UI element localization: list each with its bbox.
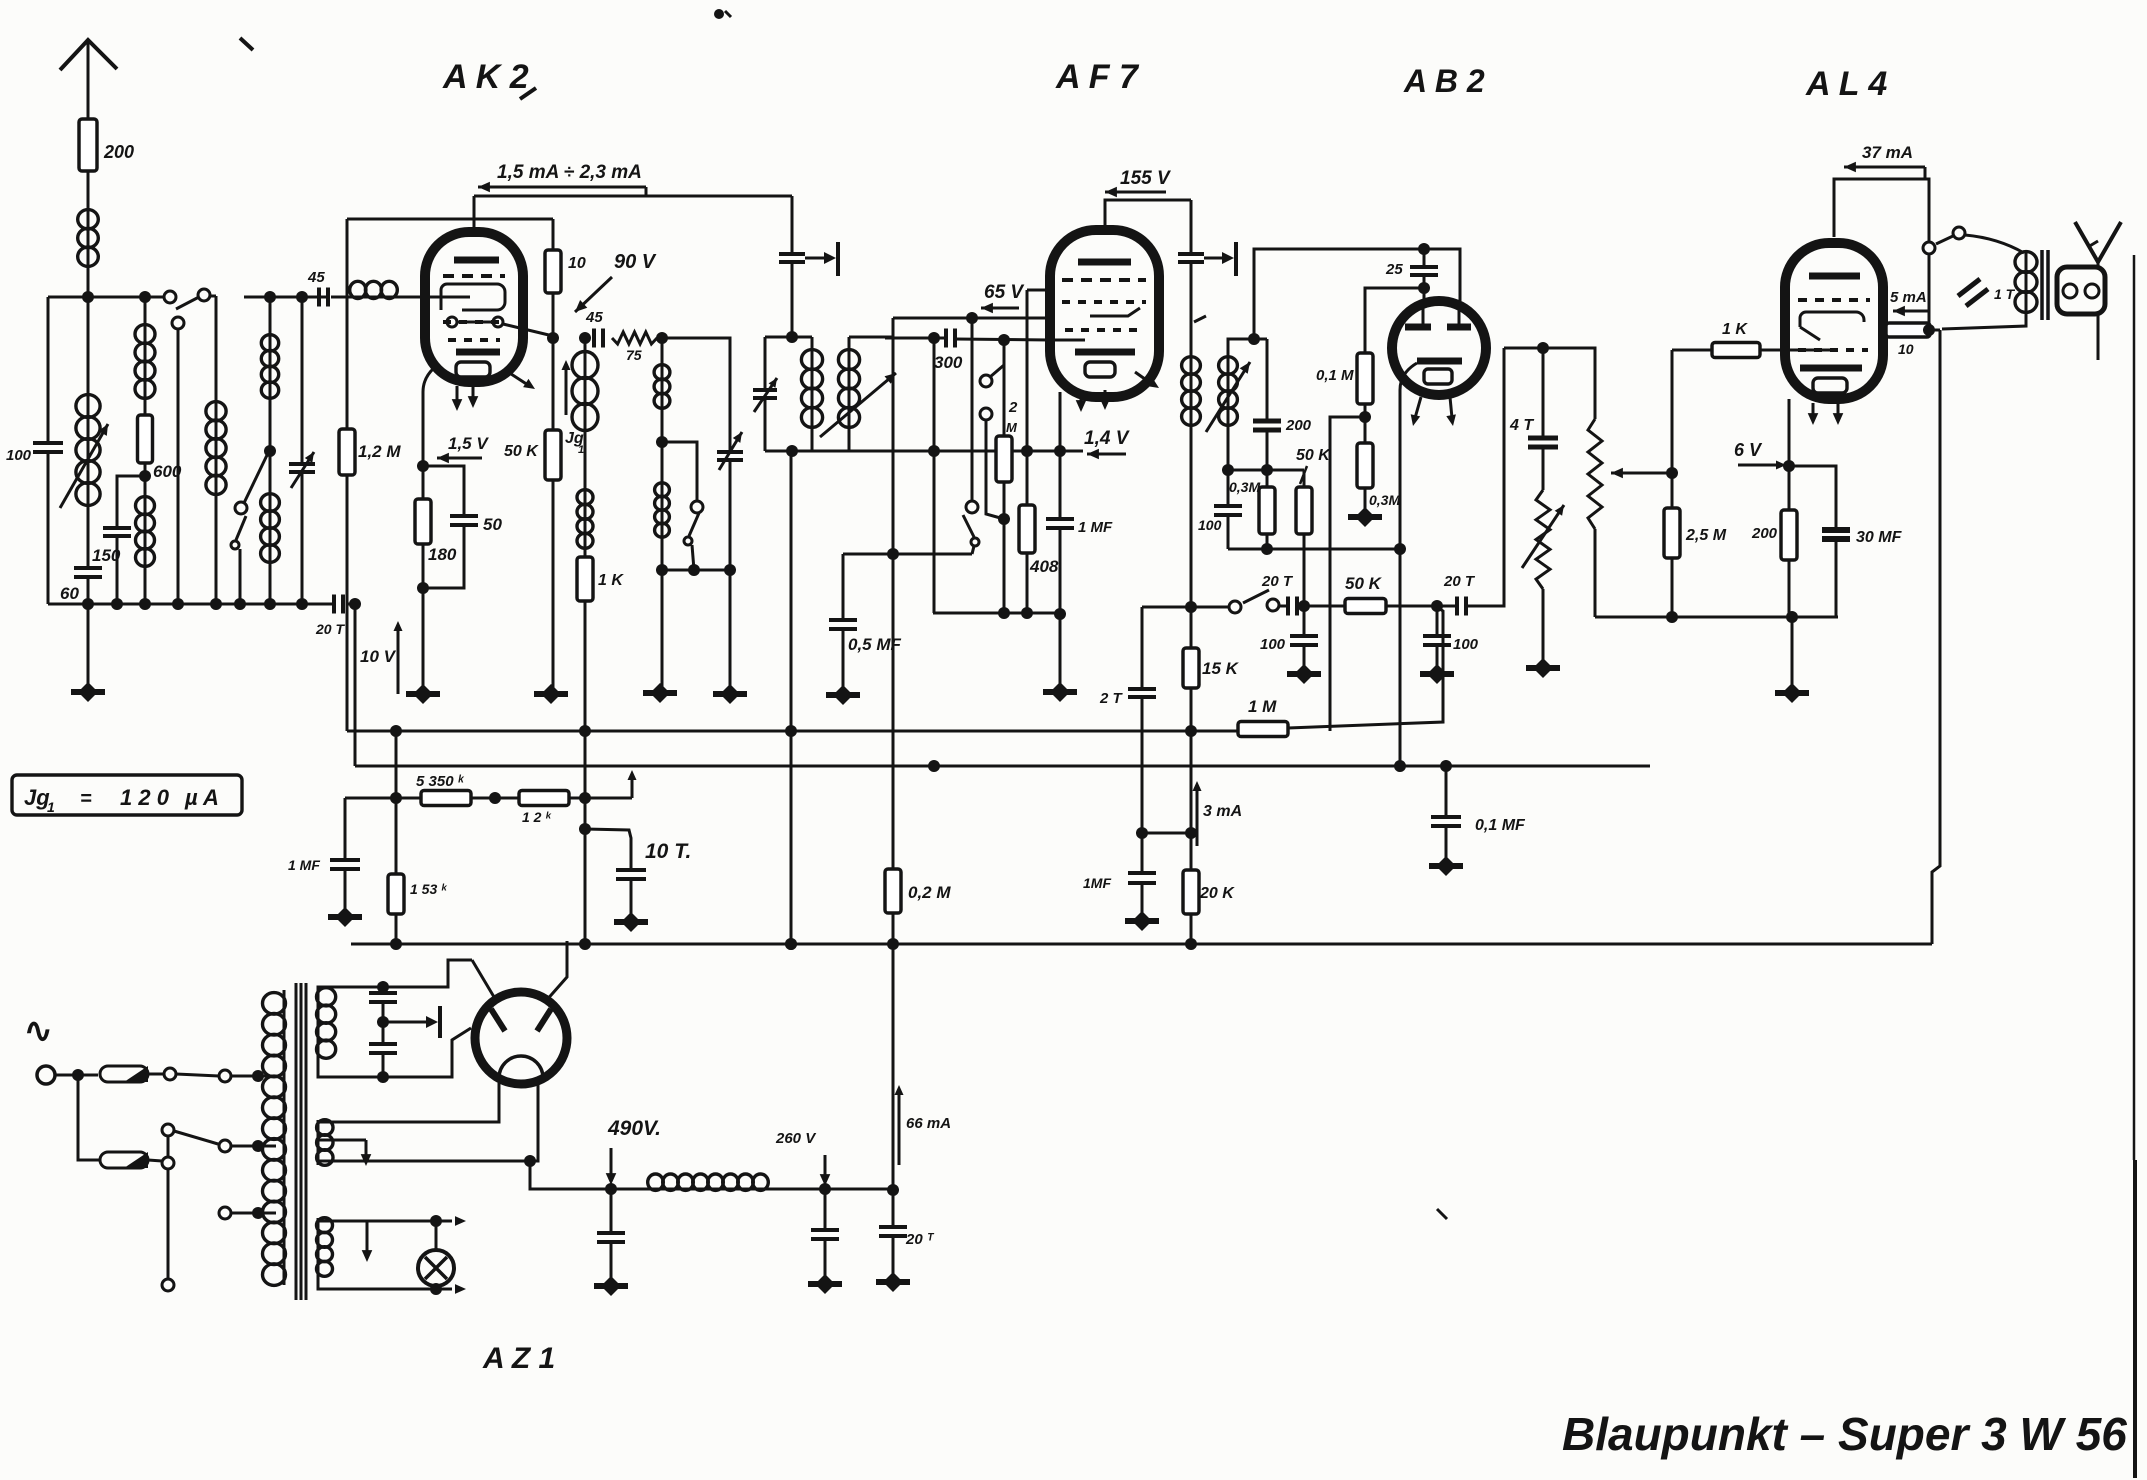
- wire x585 to bus3: [579, 731, 591, 950]
- wire coil to R600: [144, 398, 147, 415]
- wire x893 to 0.2M: [892, 554, 895, 869]
- wire top rail y297: [48, 296, 165, 299]
- svg-text:37 mA: 37 mA: [1862, 143, 1913, 162]
- wire AF7 g2: [893, 312, 1050, 324]
- primary tap 3: [219, 1207, 266, 1219]
- antenna symbol: [60, 40, 117, 119]
- resistor 153: [388, 874, 448, 914]
- wire anode rail y196: [474, 195, 792, 198]
- svg-text:10: 10: [1898, 341, 1914, 357]
- svg-text:1: 1: [578, 444, 584, 456]
- tube AL4 grid box: [1800, 312, 1864, 327]
- svg-text:0,1 M: 0,1 M: [1316, 367, 1354, 384]
- capacitor HV bypass lower: [369, 1044, 397, 1077]
- svg-text:408: 408: [1029, 557, 1059, 576]
- svg-text:50: 50: [483, 515, 502, 534]
- tube AK2 grid dashes 2: [443, 320, 503, 324]
- node osc tank: [656, 408, 668, 448]
- wire x730 down: [729, 460, 732, 688]
- svg-text:1,5 V: 1,5 V: [448, 434, 489, 453]
- switch contact x972 lower: [971, 538, 979, 546]
- wire rail y549: [1228, 543, 1406, 555]
- wire AL4 anode: [1834, 179, 1929, 242]
- coil osc lower: [261, 451, 280, 562]
- wire 150 branch: [117, 476, 145, 527]
- svg-text:10 T.: 10 T.: [645, 840, 691, 863]
- OT core: [2042, 250, 2048, 320]
- ground (1MF): [1125, 883, 1159, 931]
- switch arm speaker: [1936, 236, 1953, 244]
- wire x396 column: [390, 725, 402, 874]
- label AC: [24, 1012, 53, 1050]
- svg-text:6 V: 6 V: [1734, 440, 1763, 460]
- capacitor filter 2: [811, 1189, 839, 1239]
- resistor 1,2M: [339, 429, 401, 475]
- label AB 2: [1403, 63, 1485, 99]
- resistor 10 (osc anode): [545, 219, 586, 293]
- wire coil to node: [82, 266, 94, 303]
- ground (0,5MF): [826, 629, 860, 705]
- wire 0.2M to bus3: [887, 913, 899, 950]
- variable capacitor (tuning): [289, 452, 315, 488]
- svg-text:1 2 0: 1 2 0: [120, 785, 170, 810]
- IF1 tuning arrow: [820, 373, 896, 437]
- transformer HV winding: [317, 988, 336, 1059]
- svg-text:0,1 MF: 0,1 MF: [1475, 817, 1526, 834]
- chassis arm AK2: [805, 242, 838, 276]
- svg-text:60: 60: [60, 584, 79, 603]
- wire row to switch: [1191, 606, 1229, 609]
- coil antenna choke: [78, 210, 99, 267]
- wire y451 rail: [765, 445, 1083, 457]
- capacitor HV bypass upper: [369, 987, 397, 1002]
- resistor 75 zigzag: [612, 332, 657, 363]
- wire 50K to node: [1386, 600, 1455, 612]
- coil osc tank lower: [655, 442, 670, 576]
- tube AF7 cathode box: [1085, 362, 1115, 377]
- switch contact speaker 2: [1953, 227, 1965, 239]
- svg-text:200: 200: [103, 142, 134, 162]
- speaker horn: [2075, 222, 2121, 267]
- wire x88: [87, 297, 90, 395]
- capacitor 300: [934, 329, 963, 373]
- svg-text:1 M: 1 M: [1248, 697, 1277, 716]
- label 37 mA: [1862, 143, 1913, 162]
- wire AF7 anode: [1105, 200, 1191, 230]
- capacitor 30MF: [1789, 466, 1903, 546]
- heater CT arrow: [362, 1221, 373, 1262]
- potentiometer volume: [1588, 419, 1602, 529]
- wire B+ riser: [887, 944, 899, 1196]
- svg-text:200: 200: [1285, 417, 1312, 434]
- arrow 1,5-2,3mA: [478, 182, 646, 196]
- resistor 1K (osc): [577, 548, 624, 601]
- capacitor 1MF (AF7 cathode): [1046, 519, 1113, 536]
- switch contact x972 upper: [966, 501, 978, 513]
- label 490V: [607, 1117, 661, 1140]
- switch arm x972: [963, 515, 974, 537]
- svg-text:45: 45: [585, 309, 603, 326]
- wire AK2 anode lead: [473, 196, 476, 232]
- wire x240 to bus: [239, 549, 242, 604]
- wire below var coil: [87, 505, 90, 566]
- svg-text:A F 7: A F 7: [1055, 58, 1140, 96]
- wire sec bottom: [1222, 425, 1234, 476]
- capacitor 0,1MF: [1431, 766, 1526, 834]
- wire bus3: [351, 938, 1932, 950]
- switch contact x240 lower: [231, 541, 239, 549]
- label current 1,5mA - 2,3mA: [497, 162, 642, 183]
- scan speck 6: [2088, 241, 2098, 247]
- IF1 secondary box: [849, 336, 893, 339]
- svg-text:1 MF: 1 MF: [288, 857, 320, 873]
- tube AB2 heater arrow 1: [1411, 397, 1421, 426]
- capacitor 60: [60, 568, 102, 603]
- wire antenna to coil: [87, 171, 90, 210]
- tube AK2 dashes 3: [448, 338, 500, 342]
- arrow heater right 2: [455, 1284, 466, 1294]
- svg-text:50 K: 50 K: [1345, 574, 1383, 593]
- selector contact 2: [162, 1157, 174, 1169]
- wire screen riser: [1932, 330, 1940, 944]
- wire HV top: [318, 960, 472, 993]
- selector contact 3: [162, 1124, 174, 1136]
- scan speck 4: [1194, 316, 1206, 322]
- svg-text:100: 100: [1198, 517, 1222, 533]
- svg-text:180: 180: [428, 545, 457, 564]
- wire wiper to 1K: [1672, 349, 1712, 352]
- tube AZ1 anode 1: [491, 1009, 505, 1031]
- tube AL4 lower bar: [1800, 365, 1862, 372]
- capacitor 200 (IF2): [1253, 339, 1312, 434]
- wire fuse1 out: [148, 1073, 164, 1076]
- ground (AVC divider): [1348, 488, 1382, 527]
- wire AZ1 filament right: [318, 1083, 538, 1167]
- selector arm: [174, 1131, 218, 1144]
- wire 300 to AF7: [955, 334, 1050, 346]
- wire x216 to bus: [215, 494, 218, 604]
- arrow 6V: [1738, 461, 1786, 470]
- filter choke: [648, 1174, 769, 1190]
- resistor 12K: [519, 791, 569, 826]
- ground (1MF AVC): [328, 869, 362, 927]
- tube AK2 cathode box: [456, 362, 490, 377]
- tube AK2 diagonal lead: [508, 372, 535, 389]
- coil antenna primary upper: [135, 325, 155, 399]
- switch contact det left: [1229, 601, 1241, 613]
- svg-text:A B 2: A B 2: [1403, 63, 1485, 99]
- scan speck 1: [714, 9, 731, 19]
- IF1 primary box: [765, 331, 812, 451]
- label 1,4 V: [1084, 428, 1130, 449]
- arrow 1,5V: [437, 453, 482, 464]
- wire y570: [662, 564, 736, 576]
- IF1 primary coil: [801, 337, 822, 451]
- speaker terminals: [2063, 284, 2099, 298]
- label 50K pointer: [1296, 447, 1331, 484]
- arrow 155V: [1105, 187, 1166, 198]
- wire 5350 to 12K: [471, 792, 519, 804]
- wire 20T2 to riser: [1466, 348, 1504, 606]
- svg-text:20 T: 20 T: [1261, 573, 1294, 590]
- tube AF7 lower bar: [1075, 349, 1135, 356]
- fuse 1: [100, 1066, 148, 1082]
- scan speck 5: [1437, 1209, 1447, 1219]
- wire cathode: [417, 392, 429, 499]
- wire x347 top: [346, 219, 349, 429]
- wire tap1 from selector: [176, 1074, 219, 1076]
- capacitor 1T: [1958, 279, 2016, 306]
- IF2 secondary coil: [1219, 349, 1238, 425]
- coil osc tank: [654, 338, 670, 408]
- label 155 V: [1120, 168, 1171, 189]
- wire AB2 diode feed: [1254, 243, 1460, 339]
- wire 20K to bus3: [1185, 914, 1197, 950]
- tube AF7 heater arrow 2: [1100, 390, 1111, 410]
- svg-text:155 V: 155 V: [1120, 168, 1171, 189]
- arrow 490V: [606, 1148, 617, 1185]
- wire 12K out: [569, 797, 632, 800]
- wire anode rail corner: [791, 196, 794, 252]
- ground (osc): [643, 683, 677, 703]
- svg-text:2 T: 2 T: [1099, 690, 1124, 707]
- tube AB2 cathode box: [1424, 369, 1452, 384]
- wire 180 to node: [417, 544, 429, 690]
- primary tap 1: [219, 1070, 266, 1082]
- svg-text:2: 2: [1008, 399, 1018, 416]
- wire pot top: [1504, 342, 1595, 419]
- wire AF7 cathode lead: [1059, 392, 1062, 519]
- wire AF7 row: [933, 338, 1060, 613]
- svg-text:5 350 ᵏ: 5 350 ᵏ: [416, 773, 465, 790]
- wire switch to 20T: [1279, 605, 1286, 608]
- switch arm osc: [689, 513, 699, 536]
- resistor 10 (screen): [1886, 323, 1930, 357]
- wire 200 to rail: [1788, 560, 1791, 617]
- wire x302 to bus: [301, 472, 304, 604]
- coil osc feedback lower: [577, 490, 593, 549]
- wire heater bottom: [318, 1276, 452, 1295]
- svg-text:20 T: 20 T: [1443, 573, 1476, 590]
- capacitor 25: [1385, 249, 1438, 278]
- resistor 2,5M: [1664, 473, 1727, 558]
- wire AB2 cathode down: [1394, 390, 1406, 772]
- wire choke out: [768, 1183, 893, 1195]
- wire 153 to bus3: [390, 914, 402, 950]
- wire x270 to bus: [269, 562, 272, 604]
- wire screen to riser: [1930, 329, 1940, 332]
- tube AB2 cathode bar: [1417, 358, 1462, 365]
- svg-text:1: 1: [47, 799, 55, 815]
- variable inductor (antenna coil): [60, 395, 108, 508]
- resistor 50K (osc grid leak): [504, 430, 561, 480]
- wire 10T branch: [585, 829, 631, 870]
- svg-text:2,5 M: 2,5 M: [1685, 527, 1727, 544]
- tube AL4 heater arrow 2: [1833, 403, 1844, 425]
- wire y288: [1365, 288, 1424, 353]
- node AVC divider: [1359, 404, 1371, 443]
- tube AF7 envelope: [1050, 230, 1159, 397]
- switch contact osc lower: [684, 537, 692, 545]
- selector contact 1: [164, 1068, 176, 1080]
- arrow 260V: [820, 1155, 831, 1186]
- wire 200 down: [1266, 430, 1269, 487]
- wire g2 down: [887, 318, 899, 560]
- wire y338 to x730: [662, 338, 730, 450]
- switch contact (wave band, left): [164, 291, 176, 303]
- arrow 3mA: [1193, 781, 1243, 846]
- svg-text:4 T: 4 T: [1509, 417, 1534, 434]
- wire x145 to bus: [144, 566, 147, 604]
- capacitor screen bypass AF7: [1178, 254, 1204, 262]
- wire mains 2: [78, 1075, 100, 1160]
- wire switch to x216: [209, 295, 216, 298]
- mains terminal 1: [37, 1066, 55, 1084]
- node HV caps: [377, 1002, 389, 1044]
- svg-text:1 2 ᵏ: 1 2 ᵏ: [522, 809, 552, 825]
- node 20T out: [347, 598, 361, 610]
- terminal arrow: [628, 770, 637, 798]
- switch contact det right: [1267, 599, 1279, 611]
- wire osc switch branch: [662, 442, 697, 501]
- svg-text:300: 300: [934, 353, 963, 372]
- tube AF7 diagonal lead: [1135, 372, 1159, 388]
- transformer heater winding: [317, 1218, 333, 1277]
- wire rail y617: [1595, 611, 1838, 623]
- wire y554: [843, 553, 972, 556]
- label 1,5 V: [448, 434, 489, 453]
- wire 15K to bus1: [1185, 688, 1197, 737]
- switch contact (wave band, right): [198, 289, 210, 301]
- switch arm: [176, 297, 199, 309]
- ground (50K): [534, 684, 568, 704]
- switch contact speaker 1: [1923, 242, 1935, 254]
- resistor 0,3M (lower): [1357, 443, 1400, 508]
- wire to OT: [1965, 235, 2024, 253]
- tube AF7 anode bar: [1078, 259, 1131, 266]
- wire x553 mid: [552, 338, 555, 430]
- wire B+ out: [530, 1161, 648, 1195]
- switch contact x178: [172, 317, 184, 329]
- node switch to screen: [1923, 254, 1935, 336]
- wire switch x972: [971, 318, 974, 501]
- capacitor screen bypass AK2: [779, 254, 805, 262]
- resistor 200 (antenna series): [79, 119, 134, 171]
- resistor 1K (AL4 grid): [1712, 321, 1760, 358]
- ground (band block): [71, 604, 105, 702]
- wire IF1 sec to 300: [885, 332, 944, 344]
- wire 0,3M to rail: [1261, 534, 1273, 555]
- capacitor 10T: [616, 840, 691, 879]
- tube AK2 heater arrow 1: [452, 386, 463, 411]
- arrow 1,4V: [1087, 449, 1126, 460]
- wire selector: [167, 1136, 170, 1157]
- coil antenna primary lower: [136, 497, 155, 567]
- ground (padder): [713, 684, 747, 704]
- ground (filter 2): [808, 1239, 842, 1294]
- svg-text:µ A: µ A: [184, 785, 219, 810]
- label 6 V: [1734, 440, 1763, 460]
- wire bus1: [347, 730, 1238, 733]
- tube AK2 g2 circles: [447, 317, 503, 327]
- svg-text:15 K: 15 K: [1202, 659, 1240, 678]
- wire IF2 primary down: [1185, 425, 1197, 613]
- svg-text:10: 10: [568, 255, 586, 272]
- node 2M bottom: [998, 482, 1010, 619]
- wire selector 3: [167, 1169, 170, 1279]
- IF1 primary trimmer: [753, 378, 777, 412]
- node x270: [264, 398, 276, 457]
- wire tap to x270: [244, 451, 269, 503]
- svg-text:=: =: [80, 788, 92, 810]
- label 66 mA: [906, 1115, 951, 1132]
- svg-text:20 K: 20 K: [1199, 885, 1235, 902]
- svg-text:30 MF: 30 MF: [1856, 529, 1903, 546]
- ground (AL4 cathode rail): [1775, 617, 1809, 703]
- wire R10 down: [547, 293, 559, 344]
- wire 2,5M to rail: [1666, 558, 1678, 623]
- wire 408 to row: [1021, 553, 1033, 619]
- IF2 tuning arrow: [1206, 362, 1250, 432]
- svg-text:A K 2: A K 2: [442, 58, 529, 96]
- speaker lead: [2097, 314, 2100, 360]
- scan edge line: [2134, 255, 2135, 1478]
- resistor 50K (AF divider): [1296, 470, 1312, 534]
- transformer primary winding: [263, 990, 286, 1285]
- label AZ 1: [482, 1342, 555, 1375]
- wire 50pF to node: [423, 525, 464, 588]
- wire AZ1 anode lead left: [472, 960, 497, 1002]
- arrow Jg1: [562, 360, 571, 415]
- switch arm x240: [236, 516, 246, 540]
- svg-text:1 K: 1 K: [598, 572, 624, 589]
- wire osc switch to y570: [688, 545, 700, 576]
- svg-text:75: 75: [626, 347, 642, 363]
- selector contact 4: [162, 1279, 174, 1291]
- tube AZ1 filament: [499, 1056, 543, 1078]
- wire pot bottom: [1594, 529, 1597, 617]
- label AK 2: [442, 58, 529, 96]
- wire AL4 screen: [1883, 329, 1886, 332]
- wire to IF2 coil: [1190, 262, 1193, 357]
- ground (0,1MF): [1429, 826, 1463, 876]
- capacitor 1MF (AVC filter): [288, 798, 360, 873]
- svg-text:25: 25: [1385, 261, 1403, 278]
- tube AF7 heater arrow 1: [1076, 390, 1087, 412]
- wire x972 to y554: [972, 546, 974, 554]
- tube AK2 grid wire: [452, 296, 470, 299]
- potentiometer tone: [1522, 447, 1564, 589]
- chassis arm HV: [383, 1006, 440, 1038]
- ground (AF filter 2): [1420, 645, 1454, 684]
- capacitor 100 (antenna trim): [6, 443, 63, 464]
- tube AB2 diode plates: [1405, 324, 1471, 331]
- resistor 180: [415, 499, 457, 564]
- svg-text:490V.: 490V.: [607, 1117, 661, 1140]
- svg-text:45: 45: [307, 269, 325, 286]
- tube AK2 g2 lead: [457, 322, 553, 336]
- tube AK2 anode bar: [454, 257, 499, 264]
- switch contact osc upper: [691, 501, 703, 513]
- ground (10T): [614, 879, 648, 932]
- title Blaupunkt - Super 3W56: [1562, 1408, 2127, 1460]
- wire 1K to bus1: [579, 601, 591, 737]
- wire cap150 to bus: [116, 536, 119, 604]
- svg-text:1 53 ᵏ: 1 53 ᵏ: [410, 881, 448, 897]
- svg-text:65 V: 65 V: [984, 282, 1024, 303]
- capacitor 1MF (AGC): [1083, 873, 1156, 891]
- jack contact lower: [980, 408, 1004, 519]
